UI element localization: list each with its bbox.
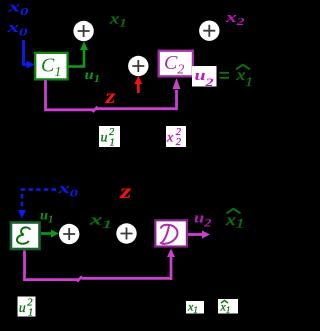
svg-text:u1: u1 [85,68,101,85]
svg-text:u1: u1 [40,209,54,226]
svg-text:u2: u2 [194,211,212,230]
svg-text:z: z [119,179,133,203]
svg-text:x1: x1 [109,11,127,29]
svg-text:x0: x0 [7,0,29,18]
svg-text:x0: x0 [6,20,28,39]
svg-text:x2: x2 [225,10,246,28]
svg-text:x1: x1 [225,212,245,231]
svg-text:x1: x1 [235,67,253,89]
svg-text:x1: x1 [88,213,112,232]
svg-text:x0: x0 [57,181,79,200]
svg-text:z: z [104,84,116,108]
